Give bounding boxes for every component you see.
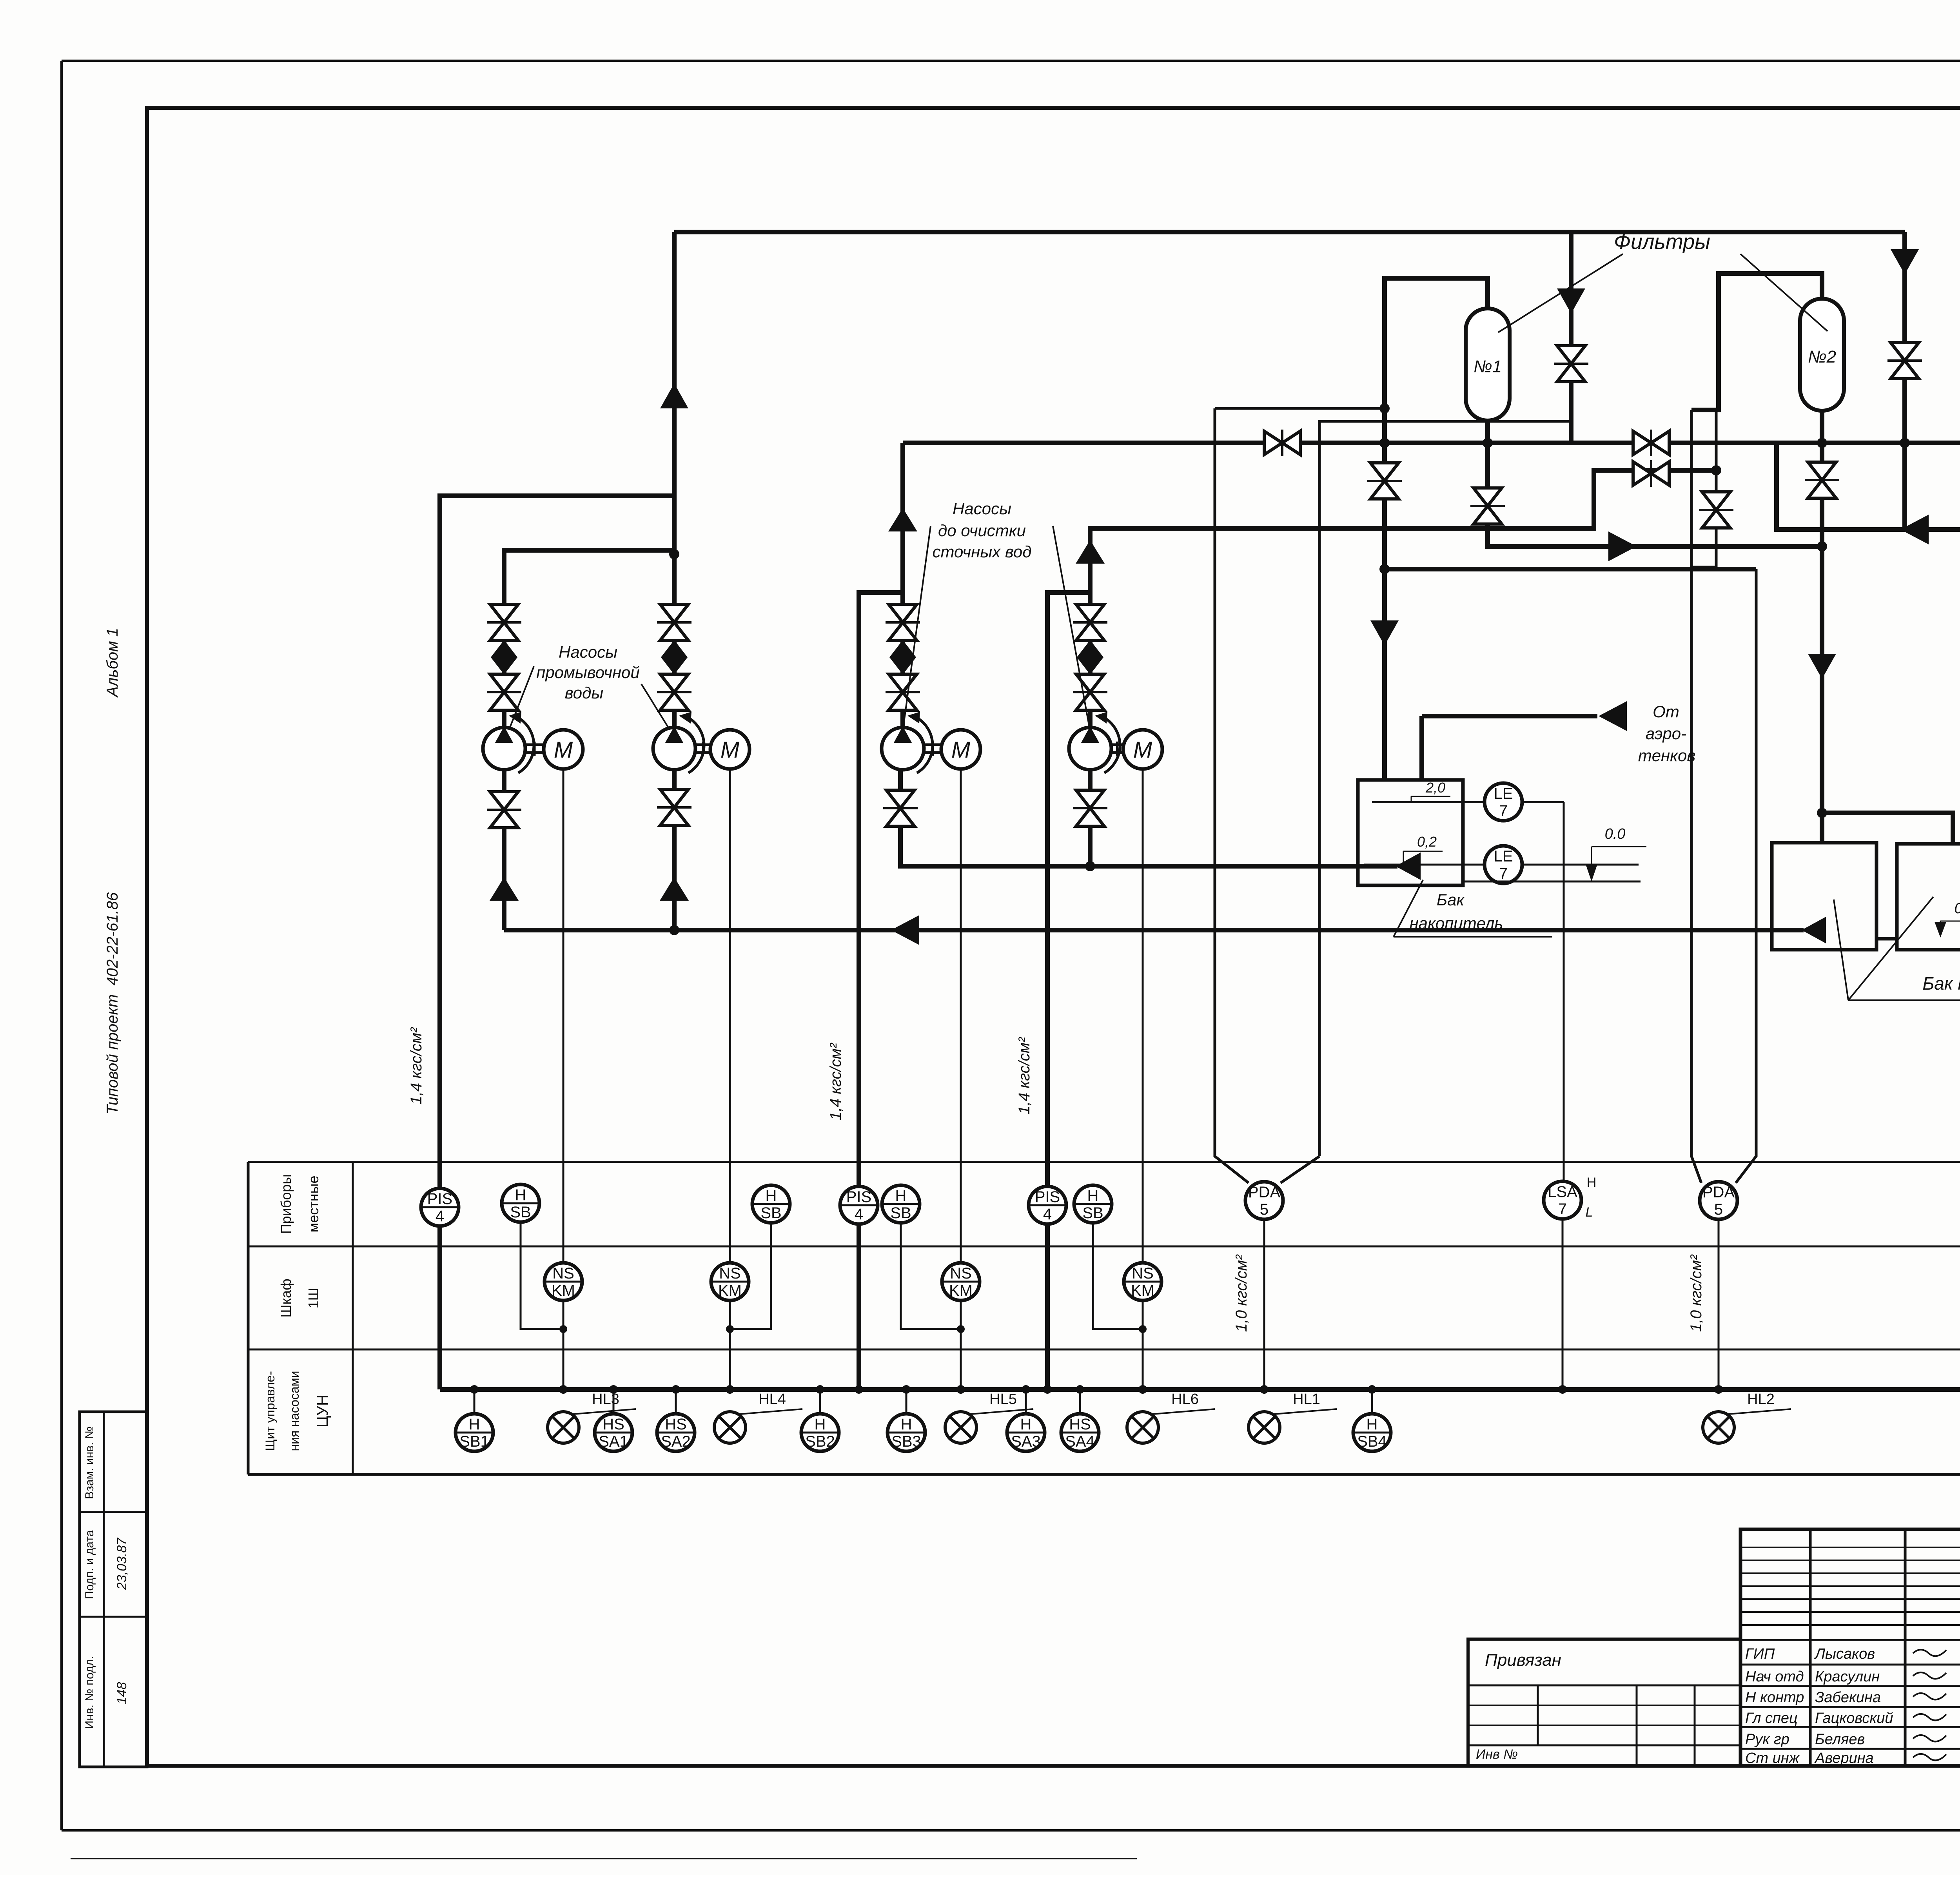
button H-SB1 <box>456 1385 493 1451</box>
svg-text:LSA: LSA <box>1548 1183 1577 1201</box>
wire HSB elbow 1967 <box>726 1204 771 1333</box>
instrument PIS-4 at 2672 <box>1029 1186 1066 1224</box>
svg-text:Беляев: Беляев <box>1815 1731 1865 1748</box>
label 1.4 kgf third <box>1016 1037 1033 1114</box>
boundary arrow from aerotanks <box>1599 701 1627 731</box>
wire HSB elbow 2788 <box>1093 1204 1147 1333</box>
coupling pump2 <box>696 742 710 756</box>
flow arrow left on suction bus <box>891 915 919 945</box>
wire top wash-water bus H1 <box>674 230 1905 234</box>
stamp label vzam inv <box>83 1426 96 1499</box>
wire pump4 discharge header L1 <box>1090 470 1716 728</box>
node junction pump1-pump2 risers <box>669 549 679 559</box>
svg-text:тенков: тенков <box>1638 746 1696 765</box>
svg-text:L: L <box>1586 1205 1593 1220</box>
svg-text:Рук гр: Рук гр <box>1745 1731 1789 1748</box>
wire pump3 riser <box>900 443 905 728</box>
svg-text:SB1: SB1 <box>459 1433 489 1450</box>
left margin stamp table <box>80 1412 147 1767</box>
privyazan mini table <box>1468 1639 1740 1766</box>
instrument PIS-4 at 2191 <box>840 1186 878 1224</box>
wire backwash line L3 <box>1381 567 1756 571</box>
svg-text:Шкаф: Шкаф <box>278 1279 294 1317</box>
svg-text:Насосы: Насосы <box>953 499 1011 518</box>
svg-text:LE: LE <box>1494 785 1513 802</box>
label wash water pumps <box>510 643 669 728</box>
svg-text:ГИП: ГИП <box>1745 1646 1775 1662</box>
valve on filter1 inlet <box>1554 346 1588 382</box>
lamp HL5 <box>945 1385 1033 1443</box>
valve stack pump4 discharge <box>1073 604 1107 710</box>
svg-text:Привязан: Привязан <box>1485 1650 1561 1670</box>
stamp handwriting number <box>114 1682 129 1705</box>
pump P1 <box>483 712 534 773</box>
wire PDA2 down to panel <box>1718 1220 1720 1389</box>
contact tank connecting stub <box>1877 937 1897 941</box>
node filter2 bottom on H2 <box>1817 438 1827 448</box>
svg-text:Красулин: Красулин <box>1815 1668 1880 1685</box>
level line 0.2 <box>1364 864 1483 866</box>
wire pump4 drain <box>1088 769 1093 866</box>
wire pump2 suction <box>672 769 677 930</box>
svg-text:1Ш: 1Ш <box>305 1288 321 1308</box>
check valve pump1 suction <box>490 877 519 901</box>
svg-text:воды: воды <box>565 684 604 702</box>
wire motor2 control line <box>729 769 731 1389</box>
instrument H-SB at 2298 <box>882 1185 920 1223</box>
valve on filter2 inlet <box>1887 343 1922 379</box>
node junction filter1 drain air <box>1379 438 1390 448</box>
svg-text:5: 5 <box>1714 1201 1723 1218</box>
instrument NS-KM 2 <box>711 1263 749 1300</box>
node junction L3 start <box>1379 564 1390 574</box>
svg-text:1,0 кгс/см²: 1,0 кгс/см² <box>1688 1254 1705 1332</box>
wire HSB elbow 1328 <box>521 1204 567 1333</box>
lamp HL2 <box>1703 1385 1791 1443</box>
svg-text:H: H <box>1087 1187 1099 1204</box>
svg-text:0,2: 0,2 <box>1955 900 1960 917</box>
svg-text:HS: HS <box>603 1416 624 1433</box>
svg-text:промывочной: промывочной <box>536 663 640 682</box>
title row ГИП <box>1745 1646 1960 1662</box>
svg-text:H: H <box>895 1187 907 1204</box>
privyazan label <box>1485 1650 1561 1670</box>
svg-text:H: H <box>515 1186 526 1204</box>
wire branch to right contact tank <box>1822 813 1953 843</box>
wire HSB elbow 2298 <box>901 1204 965 1333</box>
wire PIS1 impulse line <box>437 496 442 1389</box>
svg-text:H: H <box>815 1416 826 1433</box>
svg-text:Н: Н <box>1587 1175 1597 1190</box>
svg-text:SB3: SB3 <box>891 1433 921 1450</box>
label 1.0 kgf second <box>1688 1254 1705 1332</box>
check arrow up on pump2 riser <box>660 383 688 408</box>
instrument LSA-7 at 3986 <box>1544 1181 1581 1219</box>
row label pribory mestnye <box>278 1174 321 1234</box>
node contact tank feed split <box>1817 808 1827 818</box>
svg-text:H: H <box>1020 1416 1032 1433</box>
svg-text:H: H <box>766 1187 777 1204</box>
svg-text:23,03.87: 23,03.87 <box>114 1538 129 1590</box>
title row Гл спец <box>1745 1710 1960 1726</box>
level mark 2.0 <box>1411 780 1450 802</box>
svg-text:1,4 кгс/см²: 1,4 кгс/см² <box>408 1027 425 1104</box>
node junction L1 to filter2 tap <box>1711 465 1721 475</box>
svg-text:H: H <box>469 1416 480 1433</box>
svg-text:148: 148 <box>114 1682 129 1705</box>
svg-text:HL4: HL4 <box>759 1391 786 1407</box>
svg-text:7: 7 <box>1558 1201 1567 1218</box>
svg-text:Типовой проект 402-22-61.86: Типовой проект 402-22-61.86 <box>104 892 121 1115</box>
svg-text:M: M <box>1133 737 1152 763</box>
wire pump1 riser <box>504 550 674 728</box>
svg-text:1,4 кгс/см²: 1,4 кгс/см² <box>827 1043 844 1120</box>
flow arrow right on L2 <box>1608 531 1637 561</box>
svg-text:NS: NS <box>1132 1265 1154 1282</box>
svg-text:аэро-: аэро- <box>1646 724 1686 743</box>
flow arrow down filter1 inlet <box>1557 288 1585 314</box>
svg-text:2,0: 2,0 <box>1425 780 1445 796</box>
wire riser pump2 column <box>672 232 677 728</box>
svg-text:LE: LE <box>1494 848 1513 865</box>
svg-text:Взам. инв. №: Взам. инв. № <box>83 1426 96 1499</box>
svg-text:HS: HS <box>1069 1416 1091 1433</box>
wire LE7 upper to LSA <box>1523 801 1564 803</box>
filter vessel N2 <box>1800 299 1844 411</box>
wire motor4 control line <box>1142 769 1144 1389</box>
svg-text:Подп. и дата: Подп. и дата <box>83 1530 96 1599</box>
wire air line lower loop <box>1777 443 1960 530</box>
svg-text:до очистки: до очистки <box>938 521 1026 540</box>
svg-text:Фильтры: Фильтры <box>1614 230 1710 254</box>
level mark 0.2 <box>1403 834 1443 862</box>
node L2 join contact-tank drop <box>1817 541 1827 551</box>
svg-text:HL1: HL1 <box>1293 1391 1320 1407</box>
label 1.0 kgf first <box>1233 1254 1250 1332</box>
button H-SB2 <box>801 1385 839 1451</box>
wire PIS1 impulse header <box>440 496 674 510</box>
svg-text:1,4 кгс/см²: 1,4 кгс/см² <box>1016 1037 1033 1114</box>
wire PDA1 left impulse leg <box>1215 408 1385 1183</box>
wire PDA1 right impulse leg <box>1281 421 1571 1183</box>
svg-text:Инв. № подл.: Инв. № подл. <box>83 1656 96 1729</box>
svg-text:PDA: PDA <box>1248 1184 1281 1201</box>
svg-text:№2: №2 <box>1808 347 1836 366</box>
label bak kontaktny <box>1834 897 1960 1000</box>
svg-text:Насосы: Насосы <box>559 643 617 661</box>
instrument PDA-5 at 4384 <box>1700 1182 1737 1219</box>
title block grid <box>1740 1529 1960 1766</box>
svg-text:KM: KM <box>552 1282 575 1299</box>
valve pump2 suction <box>657 789 691 825</box>
wire suction bus <box>504 928 1804 932</box>
check valve pump4 discharge <box>1076 540 1105 564</box>
svg-text:Бак контактный: Бак контактный <box>1922 973 1960 994</box>
motor M3 <box>941 730 980 769</box>
ground line storage tank <box>1463 881 1641 883</box>
svg-text:сточных вод: сточных вод <box>933 542 1032 561</box>
coupling pump1 <box>526 742 543 756</box>
valve pump3 drain <box>883 790 918 826</box>
lamp HL4 <box>714 1385 802 1443</box>
wire from aerotanks corner <box>1419 716 1424 780</box>
label bak nakopitel <box>1394 880 1552 937</box>
coupling pump4 <box>1112 742 1122 756</box>
valve on filter2 tap branch <box>1699 492 1733 528</box>
boundary arrow into contact tank <box>1802 917 1826 943</box>
title row Ст инж <box>1745 1750 1960 1766</box>
node junction filter1 top tap <box>1379 403 1390 413</box>
valve on filter1 bottom <box>1470 488 1505 524</box>
stamp handwriting date <box>114 1538 129 1590</box>
motor M1 <box>544 730 583 769</box>
svg-text:4: 4 <box>855 1206 863 1223</box>
wire from aerotanks line <box>1422 714 1597 718</box>
lamp HL6 <box>1127 1385 1215 1443</box>
wire filter2 inlet lower stub <box>1902 443 1907 530</box>
filter vessel N1 <box>1466 308 1510 421</box>
svg-text:SA2: SA2 <box>661 1433 691 1450</box>
instrument H-SB at 1328 <box>502 1184 539 1222</box>
title row Рук гр <box>1745 1731 1960 1748</box>
instrument NS-KM 3 <box>942 1263 980 1300</box>
wire filter2 bottom drain <box>1820 411 1824 843</box>
title row Нач отд <box>1745 1668 1960 1685</box>
margin text album <box>104 628 121 698</box>
level sensor LE7 lower <box>1485 846 1522 883</box>
button HS-SA4 <box>1061 1385 1099 1451</box>
button H-SB4 <box>1353 1385 1391 1451</box>
svg-text:Альбом 1: Альбом 1 <box>104 628 121 698</box>
svg-text:NS: NS <box>719 1265 741 1282</box>
wire filter2 inlet drop <box>1902 232 1907 443</box>
level line 2.0 <box>1372 801 1483 803</box>
wire filter2 top pipe <box>1691 274 1822 410</box>
svg-text:SB: SB <box>1082 1204 1103 1222</box>
svg-text:№1: №1 <box>1474 357 1502 376</box>
node pump4 drain junction <box>1085 861 1095 871</box>
wire air line H2 <box>903 441 1960 445</box>
svg-text:0.0: 0.0 <box>1605 826 1626 842</box>
storage tank bak nakopitel <box>1358 780 1463 885</box>
wire motor3 control line <box>960 769 962 1389</box>
instrument H-SB at 1967 <box>752 1185 790 1223</box>
svg-text:Щит управле-: Щит управле- <box>263 1371 277 1451</box>
stamp label podp i data <box>83 1530 96 1599</box>
label 1.4 kgf second <box>827 1043 844 1120</box>
svg-text:HL5: HL5 <box>989 1391 1017 1407</box>
svg-text:От: От <box>1653 702 1679 721</box>
label filters with leaders <box>1498 230 1828 332</box>
valve on L1 branch <box>1633 460 1669 487</box>
level mark 0.2 contact <box>1935 900 1960 938</box>
check valve pump3 discharge <box>888 508 917 531</box>
wire filter1 top pipe <box>1385 278 1488 780</box>
node filter2 inlet on H2 <box>1900 438 1910 448</box>
svg-text:ния насосами: ния насосами <box>287 1371 301 1451</box>
svg-text:5: 5 <box>1260 1201 1269 1218</box>
wire LSA7 down to panel <box>1562 1220 1564 1389</box>
svg-text:Аверина: Аверина <box>1814 1750 1874 1766</box>
button H-SA3 <box>1007 1385 1045 1451</box>
svg-text:SB: SB <box>510 1204 531 1221</box>
svg-text:0,2: 0,2 <box>1417 834 1437 850</box>
lamp HL3 <box>548 1385 636 1443</box>
svg-text:SA4: SA4 <box>1065 1433 1095 1450</box>
svg-text:KM: KM <box>949 1282 973 1299</box>
instrument H-SB at 2788 <box>1074 1185 1112 1223</box>
check arrow down on backwash drain <box>1370 620 1399 646</box>
svg-text:1,0 кгс/см²: 1,0 кгс/см² <box>1233 1254 1250 1332</box>
row label shkaf 1sh <box>278 1279 321 1317</box>
label sewage pumps <box>904 499 1089 725</box>
wire filter2 tap valve branch <box>1691 410 1716 567</box>
svg-text:Нач отд: Нач отд <box>1745 1668 1804 1685</box>
flow arrow down filter2 inlet <box>1891 249 1919 274</box>
svg-text:Приборы: Приборы <box>278 1174 294 1234</box>
svg-text:PIS: PIS <box>846 1188 871 1206</box>
svg-text:Забекина: Забекина <box>1815 1689 1881 1706</box>
svg-text:Гл спец: Гл спец <box>1745 1710 1798 1726</box>
title row Н контр <box>1745 1689 1960 1706</box>
pump P3 <box>882 712 933 773</box>
svg-text:7: 7 <box>1499 865 1508 882</box>
button HS-SA1 <box>595 1385 632 1451</box>
instrument NS-KM 4 <box>1124 1263 1161 1300</box>
lamp HL1 <box>1249 1385 1337 1443</box>
svg-text:KM: KM <box>718 1282 742 1299</box>
svg-text:PIS: PIS <box>427 1190 452 1208</box>
flow arrow left on lower loop <box>1900 515 1929 544</box>
node pump2 suction junction <box>669 925 679 935</box>
svg-text:Лысаков: Лысаков <box>1814 1646 1875 1662</box>
svg-text:накопитель: накопитель <box>1410 914 1503 932</box>
label 1.4 kgf first <box>408 1027 425 1104</box>
svg-text:SA1: SA1 <box>599 1433 628 1450</box>
contact tank left vessel <box>1772 843 1877 950</box>
flow arrow left into storage tank <box>1396 852 1421 880</box>
pump P2 <box>653 712 704 773</box>
svg-text:PIS: PIS <box>1035 1188 1060 1206</box>
svg-text:H: H <box>1367 1416 1378 1433</box>
flow arrow down to contact tank <box>1808 654 1836 679</box>
row label schit cun <box>263 1371 331 1451</box>
svg-text:HL6: HL6 <box>1171 1391 1199 1407</box>
instrument table grid <box>248 1162 1960 1474</box>
svg-text:Ст инж: Ст инж <box>1745 1750 1800 1766</box>
valve on H2 mid <box>1633 430 1669 456</box>
svg-text:местные: местные <box>305 1175 321 1232</box>
svg-text:SB4: SB4 <box>1357 1433 1387 1450</box>
wire LE7 lower out <box>1523 864 1639 866</box>
valve stack pump1 discharge <box>487 604 521 710</box>
svg-text:NS: NS <box>950 1265 972 1282</box>
svg-text:Инв №: Инв № <box>1476 1747 1518 1762</box>
valve on filter2 bottom <box>1805 462 1839 498</box>
wire pump1 suction <box>502 769 506 930</box>
check valve pump2 suction <box>660 877 689 901</box>
wire filter1 bottom drain L2 <box>1488 421 1822 546</box>
valve on filter1 backwash drain <box>1367 463 1402 499</box>
svg-text:KM: KM <box>1131 1282 1154 1299</box>
svg-text:Гацковский: Гацковский <box>1815 1710 1893 1726</box>
svg-text:Н контр: Н контр <box>1745 1689 1804 1706</box>
motor M4 <box>1123 730 1162 769</box>
svg-text:HL2: HL2 <box>1747 1391 1775 1407</box>
inv no label <box>1476 1747 1518 1762</box>
wire PDA1 down to panel <box>1263 1219 1265 1389</box>
svg-text:PDA: PDA <box>1702 1184 1735 1201</box>
svg-text:4: 4 <box>436 1208 444 1225</box>
svg-text:SB: SB <box>760 1204 781 1222</box>
valve pump1 suction <box>487 792 521 828</box>
stamp label inv podl <box>83 1656 96 1729</box>
instrument NS-KM 1 <box>544 1263 582 1300</box>
wire pumps34 drain line <box>900 769 1397 866</box>
wire PDA2 left impulse leg <box>1691 410 1701 1183</box>
button HS-SA2 <box>657 1385 695 1451</box>
wire PIS3 impulse line <box>1047 593 1090 1389</box>
svg-text:ЦУН: ЦУН <box>314 1395 331 1427</box>
marker H on LSA7 <box>1586 1175 1597 1220</box>
wire level impulse down to LSA7 <box>1563 802 1565 1181</box>
margin text project <box>104 892 121 1115</box>
svg-text:M: M <box>951 737 971 763</box>
svg-text:SB2: SB2 <box>805 1433 835 1450</box>
wire motor1 control line <box>563 769 564 1389</box>
svg-text:7: 7 <box>1499 802 1508 820</box>
pump P4 <box>1069 712 1120 773</box>
elevation mark 0.0 storage <box>1586 826 1646 881</box>
svg-text:HL3: HL3 <box>592 1391 619 1407</box>
motor M2 <box>710 730 750 769</box>
svg-text:4: 4 <box>1043 1206 1052 1223</box>
wire filter1 inlet drop <box>1569 232 1573 443</box>
instrument PDA-5 at 3225 <box>1245 1182 1283 1219</box>
valve on H2 left <box>1264 430 1300 456</box>
svg-text:Бак: Бак <box>1437 890 1465 909</box>
svg-text:M: M <box>720 737 740 763</box>
valve pump4 drain <box>1073 790 1107 826</box>
svg-text:M: M <box>554 737 573 763</box>
wire PDA2 right impulse leg <box>1736 569 1756 1183</box>
svg-text:H: H <box>901 1416 912 1433</box>
button H-SB3 <box>887 1385 925 1451</box>
instrument PIS-4 at 1122 <box>421 1188 459 1226</box>
svg-text:HS: HS <box>665 1416 687 1433</box>
svg-text:NS: NS <box>552 1265 574 1282</box>
node filter1 bottom on H2 <box>1483 438 1493 448</box>
label from aerotanks <box>1638 702 1696 765</box>
svg-text:SB: SB <box>890 1204 911 1222</box>
wire PIS2 impulse line <box>859 593 903 1389</box>
svg-text:SA3: SA3 <box>1011 1433 1041 1450</box>
coupling pump3 <box>925 742 940 756</box>
level sensor LE7 upper <box>1485 783 1522 821</box>
wire control panel bus <box>440 1385 1960 1394</box>
contact tank right vessel <box>1897 844 1960 950</box>
valve stack pump2 discharge <box>657 604 691 710</box>
valve stack pump3 discharge <box>886 604 920 710</box>
